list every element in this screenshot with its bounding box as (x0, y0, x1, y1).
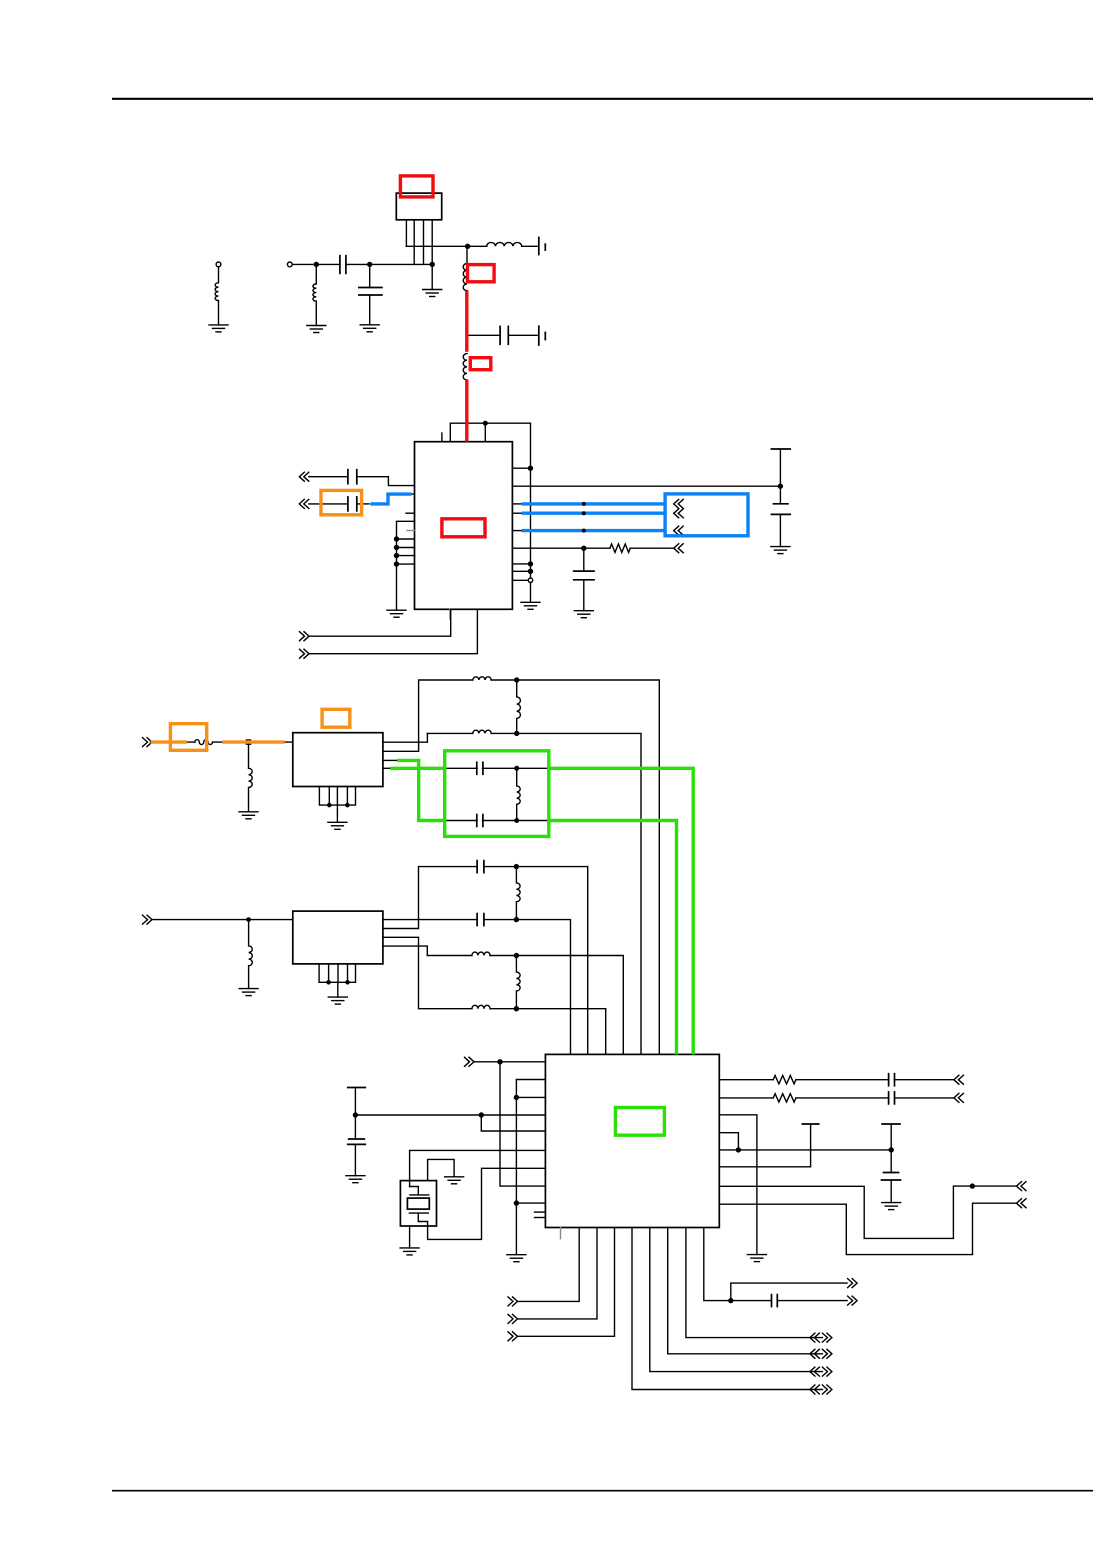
port arrow P18 (bidir) (810, 1349, 832, 1358)
wire line B to riser (491, 733, 641, 1054)
wire FL1 pin3 stub (383, 759, 397, 761)
port arrow P14 (508, 1314, 518, 1323)
wire U2 rail2 top (516, 1080, 545, 1255)
crystal Y1 case (400, 1181, 436, 1226)
test point bar TP3 (802, 1123, 818, 1125)
wire FL2 pin1 row (383, 919, 477, 921)
Q1 pin 3 (423, 220, 425, 265)
ground for left rail (387, 610, 406, 617)
junction dot line B (515, 731, 519, 735)
inductor L13 (472, 1005, 490, 1008)
red highlight box on L4 (468, 265, 495, 282)
inductor L7 (line A) (473, 677, 491, 680)
junction dot resistor row (582, 546, 586, 550)
ground for C16 (882, 1203, 901, 1210)
junction dot P8 rail (498, 1060, 502, 1064)
crystal case ground stem (409, 1226, 411, 1248)
green label box on U2 (615, 1108, 664, 1136)
wire P1 to C4 (309, 476, 348, 478)
inductor L2 (313, 264, 316, 325)
junction dots left rail (395, 537, 399, 566)
inductor L9 between lines A and B (517, 680, 521, 733)
node C junction (466, 244, 470, 248)
wire crystal to U2 pin a (410, 1150, 546, 1186)
capacitor C12 (889, 1074, 895, 1086)
wire C15 to U2 pins (355, 1114, 545, 1116)
comb junction dots FL2 (327, 981, 349, 984)
U1 left rail with pins (397, 521, 415, 610)
blue highlight box (665, 494, 748, 536)
U1 blue row stubs (512, 504, 521, 531)
wire U2 pin drop (719, 1133, 738, 1150)
blue wire IF net a (370, 494, 411, 504)
via dot on blue row3 (582, 529, 586, 533)
U1 top stub pin (441, 433, 443, 442)
red wire VCC net lower (465, 380, 468, 442)
inductor L8 (line B) (473, 730, 491, 733)
U1 left stub pin a (406, 512, 415, 514)
wire C10 to riser (484, 920, 571, 1055)
ground for C15 (346, 1176, 365, 1183)
orange label box on FL1 (322, 709, 350, 727)
red wire VCC net upper (465, 291, 468, 352)
via dot on blue row1 (582, 502, 586, 506)
wire node C down (466, 246, 468, 263)
ground for rail2 (507, 1255, 526, 1262)
ground for crystal terminal (445, 1177, 464, 1184)
wire C5 stub to blue (357, 503, 369, 505)
Q1 pin 1 (405, 220, 407, 247)
capacitor C6 (771, 504, 790, 547)
capacitor C11 (477, 861, 484, 873)
wire C1 to node B (346, 263, 432, 265)
top bar of C6 stack (771, 449, 790, 504)
junction dots L15 (514, 954, 518, 1011)
wire J2 to node A (292, 263, 340, 265)
wire FL1 pin2 (383, 680, 473, 751)
ground for FL2 (328, 997, 347, 1004)
red highlight box on Q1 (400, 176, 433, 197)
wire P8 rail down to U2 pin (500, 1062, 545, 1186)
wire branch up to port (731, 1283, 847, 1301)
orange highlight box on R2 (170, 724, 206, 751)
port arrow P19 (bidir) (810, 1333, 832, 1342)
wire rail2 pin c (516, 1202, 545, 1204)
resistor R4 (773, 1076, 796, 1084)
node B junction (368, 262, 372, 266)
wire U2 pin to test point (719, 1124, 810, 1167)
port arrow P4 (out, bottom-left) (300, 649, 310, 658)
wire P4 to U1 bottom pin (309, 609, 477, 653)
junction dot C16 (889, 1148, 893, 1152)
transistor Q1 package (396, 193, 441, 220)
port arrow P6 (in) (143, 738, 153, 747)
port arrow P9 (954, 1075, 964, 1084)
IC U2 body (545, 1054, 719, 1227)
open junction node D (246, 740, 250, 744)
capacitor C2 (shunt) (359, 264, 382, 324)
capacitor C14 (772, 1295, 778, 1307)
green wire pin4 entry (390, 767, 443, 770)
terminal J1 (216, 262, 221, 267)
wire R2 to filter FL1 (151, 741, 195, 743)
wire U2 right row2 (719, 1097, 773, 1099)
wire FL1 pin4 stub (383, 767, 390, 769)
wire U2 bottom pin5 to port (650, 1228, 823, 1372)
wire U2 detour row1 to port (719, 1186, 1016, 1238)
capacitor C13 (889, 1092, 895, 1104)
port arrow P3 (out, bottom-left) (300, 632, 310, 641)
U1 left stub pin b (407, 530, 415, 532)
inductor L12 between rows (516, 867, 520, 920)
ground for L6 (239, 812, 258, 819)
inductor L6 shunt (249, 744, 253, 812)
port arrow P2 (in, left) (299, 499, 309, 508)
wire blue tip into U1 (411, 493, 415, 495)
wire U2 bottom pin4 to port (632, 1228, 822, 1390)
red highlight box on L5 (470, 358, 491, 370)
junction dot bus a (529, 466, 533, 470)
junction dots green rows (515, 767, 519, 823)
wire R1 to port (630, 547, 673, 549)
red label box on U1 (442, 519, 485, 537)
FL2 case comb (319, 964, 355, 982)
top bar of C15 stack (348, 1088, 366, 1140)
green wire pin3 elbow (397, 760, 443, 820)
port arrow P1 (in, left) (299, 472, 309, 481)
crystal Y1 symbol (407, 1168, 545, 1239)
wire C12 to port (895, 1079, 954, 1081)
port arrow P16 (bidir) (810, 1385, 832, 1394)
wire U1 resistor row (512, 547, 610, 549)
wire P2 to C5 (309, 503, 348, 505)
wire U1 pins to bus lower (512, 564, 530, 580)
ground for FL1 (328, 822, 347, 829)
comb junction dots (328, 804, 349, 807)
wire L14 row to riser (490, 956, 623, 1055)
junction dot row C11 (514, 865, 518, 869)
wire U1 long line to C6 (512, 485, 780, 487)
wire R4 to C12 (796, 1079, 889, 1081)
capacitor C3 (500, 326, 508, 344)
green highlight box on C8 C9 (445, 751, 549, 837)
capacitor C4 (348, 470, 357, 484)
ground for right rail (747, 1255, 766, 1262)
wire U2 detour row2 to port (719, 1203, 1016, 1254)
green wire row2 out (551, 821, 677, 1055)
filter FL2 body (293, 911, 383, 964)
terminal J2 (287, 262, 292, 267)
port arrow P8 (in) (465, 1057, 475, 1066)
capacitor C5 (348, 497, 357, 511)
ground for C6 (771, 547, 790, 554)
port arrow P21 (848, 1296, 858, 1305)
junction dot branch (479, 1113, 483, 1117)
ground for C7 (574, 611, 593, 618)
capacitor C9 (477, 815, 483, 827)
junction dot pin4 (430, 262, 434, 266)
wire C4 to U1 pin (357, 477, 415, 486)
FL1 case ground stem (336, 805, 338, 822)
inductor L14 (472, 952, 490, 955)
wire red net branch at C3 (467, 334, 500, 336)
top bar of C16 stack (882, 1124, 900, 1173)
ground for L2 (307, 326, 326, 333)
port arrow P11 (1017, 1182, 1027, 1191)
bottom page rule (112, 1490, 1093, 1492)
filter FL1 body (293, 733, 383, 787)
capacitor C10 (477, 914, 484, 926)
wire U2 pin to ground rail (719, 1115, 757, 1255)
wire C14 to port (777, 1300, 847, 1302)
capacitor C7 branch (574, 548, 594, 611)
inductor L1 (215, 267, 218, 325)
junction dot FL2 input (247, 918, 250, 921)
via dot on blue row2 (582, 511, 586, 515)
U1 bottom stub pin (449, 609, 451, 619)
junction dot drop (736, 1148, 740, 1152)
resistor R2 (in orange path) (195, 740, 213, 745)
orange highlight box on C5 (321, 490, 362, 514)
wire rail2 pin b (516, 1096, 545, 1098)
top page rule (112, 98, 1093, 100)
capacitor C8 (477, 762, 483, 774)
Q1 pin 2 (413, 220, 415, 265)
inductor L10 between green rows (517, 768, 520, 820)
wire U2 row to C16 (719, 1149, 891, 1151)
ground for L1 (209, 325, 228, 332)
wire U2 bottom pin1 to port (519, 1228, 580, 1302)
RF ground stub TP1 (539, 237, 546, 254)
inductor L11 shunt (249, 920, 253, 989)
wire L13 row to riser (490, 1009, 606, 1055)
wire U2 bottom pin3 to port (519, 1228, 615, 1337)
blue wire row2 to box (522, 512, 665, 515)
wire C3 to TP2 (508, 334, 537, 336)
capacitor C1 (series) (340, 256, 346, 274)
blue wire row1 to box (522, 502, 665, 505)
blue wire row3 to box (522, 529, 665, 532)
wire FL1 pin1 (383, 733, 428, 742)
inductor L15 between rows (516, 956, 520, 1009)
node A junction (314, 262, 318, 266)
orange wire RF in a (151, 740, 188, 743)
U2 bottom stub pin (560, 1228, 562, 1239)
wire line B from pin1 riser (427, 732, 472, 734)
wire U2 right row1 (719, 1079, 773, 1081)
junction dot detour (970, 1184, 974, 1188)
wire C13 to port (895, 1097, 954, 1099)
crystal case terminal to ground (428, 1159, 455, 1180)
wire R5 to C13 (796, 1097, 889, 1099)
port arrow P10 (954, 1093, 964, 1102)
junction dot top loop (484, 421, 488, 425)
junction dot C6 stack (778, 484, 782, 488)
U1 top pin riser (484, 423, 486, 442)
port arrow P12 (1017, 1199, 1027, 1208)
port arrows inside blue box (674, 499, 684, 508)
port arrow P7 (in) (143, 915, 153, 924)
wire green row2 (under highlight) (419, 820, 677, 822)
wire C11 to riser (484, 867, 588, 1055)
junction dot row C10 (514, 918, 518, 922)
wire P3 to U1 bottom pin (309, 609, 451, 636)
RF ground stub TP2 (539, 326, 546, 345)
capacitor C16 (882, 1173, 901, 1203)
wire U2 bottom pin2 to port (519, 1228, 598, 1319)
port arrow P13 (508, 1297, 518, 1306)
wire U1 right pin to bus (512, 467, 530, 469)
wire FL2 pin2 (383, 867, 477, 929)
junction dot pin8 (729, 1299, 733, 1303)
wire Q1 pin1 to node C (406, 245, 486, 247)
inductor L3 (487, 242, 538, 246)
U2 left stub pins (535, 1212, 546, 1217)
inductor L5 (under red highlight) (463, 354, 467, 380)
orange wire RF in b (222, 740, 284, 743)
wire line A to riser (491, 680, 659, 1054)
port arrow P17 (bidir) (810, 1367, 832, 1376)
open junction on bus (528, 578, 532, 582)
wire FL2 pin3 (383, 937, 472, 1008)
junction dot C15 stack (353, 1113, 357, 1117)
junction dots rail2 (514, 1095, 518, 1205)
wire branch to U2 pin (481, 1115, 545, 1131)
wire green row1 (under highlight) (390, 767, 693, 769)
FL2 case ground stem (337, 982, 339, 997)
FL1 case comb (319, 787, 355, 806)
junction dot line A (515, 678, 519, 682)
resistor R1 (610, 544, 630, 552)
wire P8 to U2 (474, 1061, 545, 1063)
ground for C2 (360, 325, 379, 332)
ground for Q1 pin4 (423, 290, 442, 297)
port arrow P5 (674, 544, 684, 553)
wire P7 to FL2 (152, 919, 293, 921)
wire U2 bottom pin8 branch (704, 1228, 772, 1301)
green wire row1 out (551, 768, 694, 1054)
wire FL2 pin4 (383, 946, 472, 955)
ground for L11 (239, 989, 258, 996)
wire U1 top loop (450, 423, 530, 602)
port arrow P20 (848, 1279, 858, 1288)
wire U2 bottom pin6 to port (668, 1228, 823, 1354)
port arrow P15 (508, 1332, 518, 1341)
resistor R5 (773, 1094, 796, 1102)
IC U1 body (415, 442, 513, 610)
ground for crystal case (400, 1248, 419, 1255)
wire U2 bottom pin7 to port (686, 1228, 823, 1338)
junction dots bus lower (529, 562, 533, 573)
ground for right bus (521, 602, 540, 609)
Q1 pin 4 (431, 220, 433, 290)
inductor L4 (under red highlight) (463, 264, 467, 291)
capacitor C15 (348, 1139, 366, 1176)
